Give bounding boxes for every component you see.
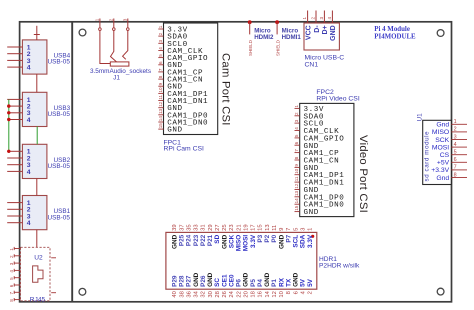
svg-text:16: 16: [258, 291, 264, 297]
label Micro USB-C CN1: [305, 55, 345, 69]
svg-text:CN1: CN1: [305, 62, 319, 69]
svg-text:8: 8: [294, 156, 299, 159]
svg-text:36: 36: [187, 291, 193, 297]
svg-text:3.5mmAudio_sockets: 3.5mmAudio_sockets: [90, 68, 151, 75]
svg-text:9: 9: [279, 228, 285, 231]
svg-text:8: 8: [286, 291, 292, 294]
svg-text:14: 14: [294, 198, 299, 204]
svg-text:8: 8: [454, 172, 457, 178]
svg-text:PI4MODULE: PI4MODULE: [374, 33, 416, 40]
svg-text:Micro USB-C: Micro USB-C: [305, 55, 345, 62]
svg-text:GND: GND: [167, 127, 182, 135]
svg-text:11: 11: [272, 225, 278, 231]
svg-text:HDMI1: HDMI1: [282, 34, 302, 41]
svg-text:7: 7: [294, 149, 299, 152]
svg-text:Pi 4 Module: Pi 4 Module: [374, 26, 410, 33]
label FPC1: [164, 139, 205, 152]
header HDR1 body: [166, 232, 317, 289]
wire USB3 to USB2 (green net): [36, 127, 38, 145]
svg-text:26: 26: [222, 291, 228, 297]
svg-text:U2: U2: [34, 254, 43, 261]
svg-text:2: 2: [158, 32, 163, 35]
connector USB2: [22, 144, 47, 178]
USB3 pin stubs: [7, 99, 22, 119]
svg-text:P23: P23: [193, 234, 200, 246]
green bus wire left of border: [8, 99, 10, 151]
connector USB3: [22, 92, 47, 126]
svg-text:14: 14: [158, 116, 163, 122]
svg-text:1: 1: [294, 105, 299, 108]
svg-text:4: 4: [9, 270, 14, 273]
label Micro HDMI2: [254, 27, 274, 41]
label Micro HDMI1: [282, 27, 302, 41]
svg-text:SC: SC: [214, 278, 221, 287]
svg-text:GND: GND: [193, 272, 200, 287]
svg-text:4: 4: [27, 169, 31, 176]
svg-text:27: 27: [215, 224, 221, 230]
svg-text:21: 21: [236, 224, 242, 230]
svg-text:USB-05: USB-05: [48, 59, 71, 66]
svg-text:P21: P21: [207, 234, 214, 246]
svg-text:2: 2: [294, 112, 299, 115]
label USB3: [48, 105, 71, 118]
svg-text:20: 20: [244, 291, 250, 297]
svg-text:SCK: SCK: [228, 234, 235, 248]
label USB4: [48, 53, 71, 66]
HDR1 even pin numbers (bottom): [172, 290, 313, 297]
svg-text:P3: P3: [257, 234, 264, 242]
svg-text:P4: P4: [257, 279, 264, 287]
junction dot: [7, 118, 10, 121]
svg-text:10: 10: [158, 87, 163, 93]
svg-text:5: 5: [293, 228, 299, 231]
svg-text:6: 6: [294, 141, 299, 144]
svg-text:19: 19: [244, 224, 250, 230]
FPC1 pin labels: [167, 27, 208, 135]
U2 pin numbers: [9, 248, 14, 302]
svg-text:1: 1: [95, 18, 100, 21]
svg-text:MISO: MISO: [236, 235, 243, 251]
svg-text:12: 12: [294, 183, 299, 189]
svg-text:3: 3: [294, 119, 299, 122]
svg-text:P27: P27: [186, 275, 193, 287]
svg-text:3.3V: 3.3V: [250, 234, 257, 248]
svg-text:2: 2: [454, 127, 457, 133]
svg-text:10: 10: [294, 168, 299, 174]
svg-text:23: 23: [229, 224, 235, 230]
svg-text:31: 31: [201, 224, 207, 230]
svg-text:3: 3: [9, 262, 14, 265]
svg-text:MOSI: MOSI: [432, 144, 449, 151]
svg-text:Gnd: Gnd: [436, 175, 449, 182]
mounting hole bottom-left: [79, 288, 86, 295]
label USB2: [48, 157, 71, 170]
svg-text:GND: GND: [171, 234, 178, 249]
svg-text:U1: U1: [416, 113, 423, 122]
svg-text:GND: GND: [330, 25, 337, 41]
svg-text:38: 38: [179, 291, 185, 297]
wire USB4 to USB3: [36, 74, 38, 92]
U1 pin stubs: [451, 124, 467, 177]
svg-text:8: 8: [158, 75, 163, 78]
svg-text:1: 1: [302, 17, 307, 20]
junction dot: [7, 150, 10, 153]
FPC2 pin labels: [304, 106, 345, 217]
J1 pin 3 (tip contact): [123, 19, 130, 60]
connector CN1 Micro USB-C body: [304, 23, 339, 50]
svg-text:15: 15: [294, 205, 299, 211]
svg-text:33: 33: [194, 224, 200, 230]
wire USB1 to U2: [36, 230, 38, 248]
svg-text:RPi Cam CSI: RPi Cam CSI: [164, 146, 205, 153]
svg-text:11: 11: [294, 176, 299, 181]
svg-text:1: 1: [9, 248, 14, 251]
U2 pin stubs: [14, 247, 20, 301]
svg-text:29: 29: [208, 224, 214, 230]
FPC2 pin stubs: [295, 108, 300, 211]
mounting hole top-left: [79, 29, 86, 36]
label HDR1: [319, 256, 360, 269]
svg-text:P24: P24: [186, 234, 193, 246]
CN1 pin stubs: [308, 11, 333, 24]
connector FPC1 body: [164, 23, 218, 135]
svg-text:9: 9: [158, 82, 163, 85]
svg-text:GND: GND: [304, 209, 319, 217]
svg-text:35: 35: [187, 224, 193, 230]
svg-text:4: 4: [158, 47, 163, 50]
mounting hole top-right: [437, 30, 444, 37]
USB2 pin stubs: [7, 151, 22, 171]
svg-text:CE0: CE0: [228, 274, 235, 287]
module U1 sd card body: [423, 120, 452, 184]
svg-text:P22: P22: [200, 234, 207, 246]
svg-text:2: 2: [109, 18, 114, 21]
USB1 pin stubs: [7, 203, 22, 223]
svg-text:P26: P26: [200, 275, 207, 287]
svg-text:GND: GND: [221, 234, 228, 249]
U2 right stub lower: [51, 292, 56, 294]
svg-text:5: 5: [294, 134, 299, 137]
HDR1 odd pin numbers (top): [172, 224, 313, 230]
U2 right stub upper: [51, 257, 56, 259]
svg-text:1: 1: [454, 119, 457, 125]
svg-text:P0: P0: [271, 234, 278, 242]
svg-text:GND: GND: [207, 272, 214, 287]
svg-text:40: 40: [172, 291, 178, 297]
svg-text:32: 32: [201, 291, 207, 297]
svg-text:5: 5: [158, 54, 163, 57]
svg-text:30: 30: [208, 291, 214, 297]
svg-text:39: 39: [172, 224, 178, 230]
svg-text:Cam Port CSI: Cam Port CSI: [219, 53, 231, 126]
FPC1 pin numbers 1-15: [158, 25, 163, 128]
J1 pin 2 (ring contact): [111, 19, 117, 62]
svg-text:SHIELD: SHIELD: [248, 40, 253, 56]
svg-text:22: 22: [236, 291, 242, 297]
svg-text:VCC: VCC: [305, 25, 312, 40]
svg-text:2: 2: [9, 255, 14, 258]
svg-text:+3.3V: +3.3V: [431, 167, 449, 174]
svg-text:CS: CS: [440, 152, 450, 159]
svg-text:4: 4: [27, 117, 31, 124]
mounting hole bottom-right: [437, 288, 444, 295]
svg-text:P25: P25: [179, 234, 186, 246]
svg-text:GND: GND: [278, 234, 285, 249]
svg-text:13: 13: [158, 108, 163, 114]
svg-text:SCK: SCK: [435, 137, 449, 144]
svg-text:7: 7: [454, 165, 457, 171]
svg-text:Gnd: Gnd: [436, 122, 449, 129]
svg-text:3: 3: [454, 134, 457, 140]
svg-text:USB-05: USB-05: [48, 163, 71, 170]
connector USB1: [22, 196, 47, 230]
svg-text:3: 3: [319, 17, 324, 20]
svg-text:GND: GND: [264, 272, 271, 287]
svg-text:15: 15: [158, 123, 163, 129]
svg-text:J1: J1: [113, 75, 120, 82]
svg-text:P2: P2: [264, 234, 271, 242]
Micro HDMI1 shield node: [275, 20, 279, 34]
svg-text:USB-05: USB-05: [48, 111, 71, 118]
svg-text:13: 13: [294, 190, 299, 196]
svg-text:7: 7: [286, 228, 292, 231]
HDR1 bottom row labels: [171, 272, 313, 287]
left column divider line: [71, 22, 73, 302]
HDR1 pin1 marker dot: [311, 235, 314, 238]
J1 pin 1 (sleeve): [99, 19, 111, 64]
svg-text:4: 4: [327, 17, 332, 20]
HDR1 top row labels: [171, 234, 313, 251]
svg-text:5: 5: [454, 150, 457, 156]
svg-text:7: 7: [9, 292, 14, 295]
CN1 pin labels VCC D- D+ GND: [305, 25, 337, 41]
svg-text:5V: 5V: [300, 278, 307, 287]
svg-text:28: 28: [215, 291, 221, 297]
svg-text:MOSI: MOSI: [243, 235, 250, 252]
svg-text:MISO: MISO: [432, 129, 449, 136]
svg-text:P29: P29: [171, 275, 178, 287]
svg-text:3.3V: 3.3V: [307, 234, 314, 248]
svg-text:11: 11: [158, 94, 163, 99]
svg-text:15: 15: [258, 224, 264, 230]
J1 sleeve barrel: [110, 62, 129, 66]
svg-text:14: 14: [265, 290, 271, 297]
svg-text:34: 34: [194, 290, 200, 297]
svg-text:25: 25: [222, 224, 228, 230]
wire USB2 to USB1: [36, 179, 38, 196]
svg-text:SD: SD: [214, 234, 221, 243]
svg-text:Video Port CSI: Video Port CSI: [357, 135, 369, 213]
svg-text:P28: P28: [179, 275, 186, 287]
svg-text:RX: RX: [278, 277, 285, 287]
svg-text:4: 4: [27, 65, 31, 72]
svg-text:TX: TX: [285, 278, 292, 287]
FPC2 pin numbers 1-15: [294, 105, 299, 211]
svg-text:CE1: CE1: [221, 274, 228, 287]
J1 pin numbers: [95, 18, 128, 21]
svg-text:37: 37: [179, 224, 185, 230]
FPC1 pin stubs: [158, 29, 163, 129]
svg-text:4: 4: [294, 127, 299, 130]
svg-text:+5V: +5V: [437, 160, 450, 167]
svg-text:8: 8: [9, 299, 14, 302]
svg-text:12: 12: [158, 101, 163, 107]
svg-text:1: 1: [158, 25, 163, 28]
module PI4MODULE label: [374, 26, 416, 40]
svg-text:5: 5: [9, 277, 14, 280]
RJ45 jack profile: [33, 266, 43, 282]
connector USB4: [22, 40, 47, 74]
svg-text:P7: P7: [285, 234, 292, 242]
svg-text:1: 1: [308, 228, 314, 231]
svg-text:18: 18: [251, 291, 257, 297]
connector FPC2 body: [300, 103, 354, 216]
label USB1: [48, 208, 71, 221]
svg-text:17: 17: [251, 224, 257, 230]
junction dot: [7, 104, 10, 107]
junction dot: [7, 111, 10, 114]
svg-text:10: 10: [279, 291, 285, 297]
Micro HDMI2 shield node: [248, 20, 252, 34]
CN1 pin numbers 1-4: [302, 17, 332, 20]
svg-text:RJ45: RJ45: [30, 296, 46, 303]
svg-text:P6: P6: [236, 279, 243, 287]
svg-text:24: 24: [229, 290, 235, 297]
svg-text:4: 4: [454, 142, 457, 148]
label J1 audio sockets: [90, 68, 151, 81]
svg-text:6: 6: [454, 157, 457, 163]
svg-text:P5: P5: [250, 279, 257, 287]
svg-text:RPi Video CSI: RPi Video CSI: [316, 96, 359, 103]
svg-text:sd card module: sd card module: [423, 131, 430, 182]
svg-text:P2HDR w/silk: P2HDR w/silk: [319, 263, 360, 270]
svg-text:3: 3: [123, 18, 128, 21]
U1 pin labels: [431, 122, 449, 182]
USB4 pin stubs: [7, 47, 22, 67]
svg-text:3: 3: [301, 228, 307, 231]
svg-text:5V: 5V: [307, 278, 314, 287]
svg-text:2: 2: [311, 17, 316, 20]
svg-text:4: 4: [27, 220, 31, 227]
svg-text:D+: D+: [322, 25, 329, 34]
svg-text:12: 12: [272, 291, 278, 297]
svg-text:SCL: SCL: [293, 235, 300, 248]
svg-text:6: 6: [293, 291, 299, 294]
svg-text:3: 3: [158, 40, 163, 43]
svg-text:6: 6: [158, 61, 163, 64]
svg-text:GND: GND: [293, 272, 300, 287]
svg-text:P1: P1: [271, 279, 278, 287]
label FPC2: [316, 89, 359, 103]
svg-text:SDA: SDA: [300, 234, 307, 248]
svg-text:HDMI2: HDMI2: [254, 34, 274, 41]
svg-text:GND: GND: [243, 272, 250, 287]
svg-text:SHIELD: SHIELD: [275, 40, 280, 56]
svg-text:2: 2: [308, 291, 314, 294]
U1 pin numbers 1-8: [454, 119, 457, 178]
svg-text:USB-05: USB-05: [48, 214, 71, 221]
IC U2 (RJ45) dashed body: [21, 247, 51, 300]
wire USB4 shield stub to top: [34, 26, 40, 40]
svg-text:7: 7: [158, 68, 163, 71]
svg-text:13: 13: [265, 224, 271, 230]
svg-text:6: 6: [9, 284, 14, 287]
svg-text:D-: D-: [314, 25, 321, 33]
svg-text:9: 9: [294, 164, 299, 167]
